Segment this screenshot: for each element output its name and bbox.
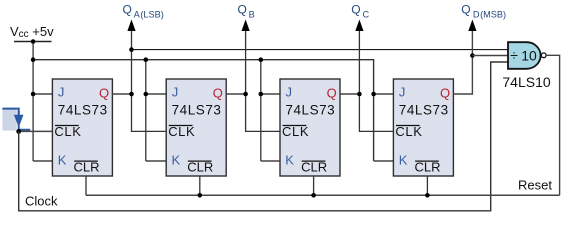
wire Reset line (86, 194, 560, 196)
Vcc supply bar (14, 41, 52, 43)
wire J pin FF1 (33, 93, 52, 95)
svg-text:K: K (58, 153, 67, 168)
wire gate output to Reset line (546, 55, 559, 195)
node Vcc bar junction (31, 39, 36, 44)
flip-flop U4 74LS73 (393, 79, 453, 176)
node J FF3 (259, 92, 264, 97)
wire Vcc rail (33, 60, 374, 161)
Vcc +5v label (10, 24, 54, 40)
wire J pin FF2 (146, 93, 166, 95)
svg-text:Reset: Reset (518, 178, 552, 193)
node J FF1 (31, 92, 36, 97)
wire Q FF3 (340, 93, 359, 95)
svg-text:÷: ÷ (510, 47, 518, 63)
svg-text:CLK: CLK (54, 124, 81, 139)
flip-flop U3 74LS73 (280, 79, 340, 176)
wire K pin FF3 (261, 160, 280, 162)
wire CLR drop FF4 (426, 176, 428, 195)
wire Q FF4 to QD vertical (453, 28, 472, 94)
svg-text:74LS73: 74LS73 (399, 103, 449, 118)
wire Q FF1 (112, 93, 131, 95)
node QC-Q junction (357, 92, 362, 97)
svg-text:Q: Q (440, 86, 450, 101)
wire CLR drop FF1 (85, 176, 87, 195)
svg-text:Q: Q (99, 86, 109, 101)
svg-text:K: K (285, 153, 294, 168)
svg-text:CLR: CLR (74, 160, 100, 175)
svg-text:J: J (172, 85, 179, 100)
svg-text:J: J (286, 85, 293, 100)
node rail FF2 (144, 57, 149, 62)
NAND gate U5 divide-by-10 (502, 42, 550, 90)
node J FF2 (144, 92, 149, 97)
wire CLR drop FF3 (313, 176, 315, 195)
wire Vcc drop FF3 (260, 60, 262, 161)
svg-text:K: K (172, 153, 181, 168)
node QA feedback junction (129, 47, 134, 52)
svg-text:J: J (399, 85, 406, 100)
node Vcc rail start (31, 57, 36, 62)
wire K pin FF1 (33, 160, 52, 162)
node QA-Q junction (129, 92, 134, 97)
node J FF4 (371, 92, 376, 97)
node reset FF2 (198, 193, 203, 198)
arrow QB (242, 20, 250, 32)
svg-text:Clock: Clock (25, 194, 58, 209)
arrow QA (127, 20, 135, 32)
svg-text:Q: Q (213, 86, 223, 101)
svg-text:Q: Q (327, 86, 337, 101)
node rail FF3 (259, 57, 264, 62)
node QB-Q junction (243, 92, 248, 97)
svg-text:CLK: CLK (395, 124, 422, 139)
flip-flop U1 74LS73 (52, 79, 112, 176)
node reset FF3 (311, 193, 316, 198)
wire Vcc vertical to J/K of FF1 (32, 42, 34, 162)
wire J pin FF4 (374, 93, 394, 95)
wire QA to gate input 1 (132, 49, 509, 51)
svg-text:CLK: CLK (168, 124, 195, 139)
node clock junction (16, 129, 21, 134)
wire QA vertical and to CLK FF2 (132, 28, 167, 131)
node QD to gate input 2 (470, 53, 475, 58)
wire QB vertical and to CLK FF3 (246, 28, 280, 131)
svg-text:CLR: CLR (187, 160, 213, 175)
wire Q FF2 (226, 93, 245, 95)
svg-text:CLK: CLK (282, 124, 309, 139)
arrow QD (468, 20, 476, 32)
svg-text:74LS73: 74LS73 (285, 103, 335, 118)
wire Vcc drop FF2 (145, 60, 147, 161)
wire clock bottom line to gate input 3 (19, 62, 508, 211)
clock input falling-edge symbol (2, 108, 30, 130)
arrow QC (355, 20, 363, 32)
wire J pin FF3 (261, 93, 280, 95)
svg-text:J: J (58, 85, 65, 100)
svg-text:74LS10: 74LS10 (502, 74, 550, 90)
svg-text:10: 10 (521, 47, 537, 63)
wire K pin FF4 (374, 160, 394, 162)
wire clock to CLK FF1 (19, 130, 53, 132)
svg-text:Vcc +5v: Vcc +5v (10, 24, 54, 40)
wire QD to gate input 2 (472, 55, 508, 57)
node reset FF4 (425, 193, 430, 198)
wire CLR drop FF2 (199, 176, 201, 195)
svg-text:74LS73: 74LS73 (58, 103, 108, 118)
wire QC vertical and to CLK FF4 (359, 28, 393, 131)
svg-text:CLR: CLR (415, 160, 441, 175)
wire K pin FF2 (146, 160, 166, 162)
svg-text:K: K (399, 153, 408, 168)
svg-text:74LS73: 74LS73 (172, 103, 222, 118)
flip-flop U2 74LS73 (166, 79, 226, 176)
svg-text:CLR: CLR (301, 160, 327, 175)
